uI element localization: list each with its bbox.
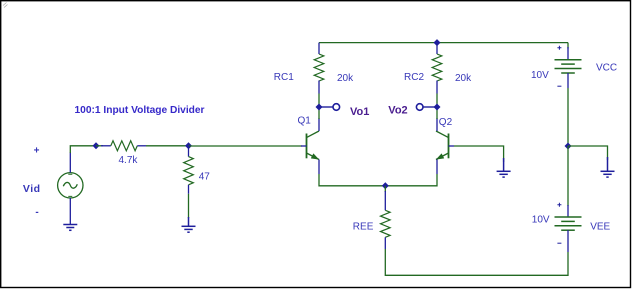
svg-text:Q1: Q1: [298, 116, 312, 127]
junction A: [93, 142, 100, 149]
wire VCC to junction: [567, 88, 569, 146]
pin Q1 collector: [318, 118, 320, 131]
wire junction to VEE: [567, 146, 569, 206]
pin VCC minus: [567, 73, 569, 88]
wire junction A to R1: [96, 145, 103, 147]
wire R2 to ground: [188, 194, 190, 218]
pin R2 bottom: [188, 185, 190, 194]
junction Vo2: [434, 104, 441, 111]
pin Q2 collector: [436, 118, 438, 131]
svg-text:100:1 Input Voltage Divider: 100:1 Input Voltage Divider: [75, 105, 205, 116]
ground (Vid): [63, 225, 77, 231]
svg-text:4.7k: 4.7k: [119, 155, 139, 166]
wire Vo1 stub: [320, 106, 333, 108]
svg-text:47: 47: [199, 171, 211, 182]
svg-text:Vo1: Vo1: [350, 106, 369, 118]
wire RC1 to Q1 collector: [318, 94, 320, 120]
resistor REE: [381, 210, 391, 237]
svg-text:+: +: [34, 145, 40, 156]
wire Vo2 stub: [423, 106, 436, 108]
pin VEE minus: [567, 230, 569, 252]
svg-text:VEE: VEE: [590, 222, 610, 233]
pin RC1 bottom: [318, 81, 320, 94]
junction E (emitters): [382, 182, 389, 189]
resistor RC1: [314, 54, 324, 81]
terminal Vo2: [416, 104, 423, 111]
wire emitter bus: [319, 174, 437, 186]
pin R1 left: [101, 145, 111, 147]
top rail wire: [319, 42, 568, 44]
svg-text:VCC: VCC: [596, 62, 617, 73]
pin REE bottom: [384, 237, 386, 249]
transistor Q1: [307, 131, 320, 160]
svg-text:RC1: RC1: [274, 72, 294, 83]
junction RC2 top: [434, 39, 441, 46]
svg-text:REE: REE: [353, 222, 374, 233]
wire Vid top to corner: [70, 146, 96, 153]
pin Vid bottom: [69, 198, 71, 225]
junction VCC/VEE: [565, 143, 572, 150]
wire Q2 base to ground: [454, 146, 504, 162]
pin VCC plus: [567, 47, 569, 60]
pin RC2 bottom: [436, 81, 438, 94]
battery VCC minus mark: [557, 85, 561, 87]
svg-text:RC2: RC2: [404, 72, 424, 83]
corner artifact: [3, 3, 8, 8]
pin RC1 top: [318, 43, 320, 54]
pin Vid top: [69, 153, 71, 173]
svg-text:Q2: Q2: [439, 117, 453, 128]
terminal Vo1: [333, 104, 340, 111]
battery VEE minus mark: [557, 242, 561, 244]
battery VEE plus mark: [557, 203, 561, 207]
pin Q1 base: [301, 145, 307, 147]
wire R1 to junction B: [146, 145, 189, 147]
wire junction to right ground: [568, 146, 608, 160]
svg-text:10V: 10V: [531, 70, 549, 81]
ground (supply): [601, 157, 615, 177]
wire VEE to bottom rail: [385, 252, 568, 275]
battery VCC plus mark: [557, 46, 561, 50]
svg-text:20k: 20k: [337, 73, 354, 84]
svg-text:10V: 10V: [532, 215, 550, 226]
wire VCC top: [567, 43, 569, 49]
junction B: [185, 142, 192, 149]
svg-text:-: -: [35, 207, 38, 218]
battery VCC: [555, 60, 582, 73]
wire RC2 to Q2 collector: [436, 94, 438, 120]
pin REE top: [384, 191, 386, 210]
ground (R2): [182, 217, 196, 232]
source Vid: [58, 173, 83, 198]
pin RC2 top: [436, 43, 438, 54]
pin Q2 emitter: [436, 160, 438, 175]
pin VEE plus: [567, 205, 569, 217]
svg-text:20k: 20k: [455, 73, 472, 84]
pin R1 right: [137, 145, 146, 147]
resistor R1 4.7k: [111, 141, 138, 151]
pin Q1 emitter: [318, 160, 320, 175]
junction Vo1: [316, 104, 323, 111]
wire junction E to REE: [384, 186, 386, 192]
svg-text:Vo2: Vo2: [388, 105, 407, 117]
wire junction B to Q1 base: [189, 145, 303, 147]
transistor Q2: [436, 131, 449, 160]
ground (Q2 base): [497, 158, 511, 177]
wire REE to bottom rail: [384, 249, 386, 276]
resistor R2 47: [184, 157, 194, 185]
pin R2 top: [188, 146, 190, 157]
pin Q2 base: [449, 145, 455, 147]
svg-text:Vid: Vid: [23, 183, 41, 195]
resistor RC2: [432, 54, 442, 81]
battery VEE: [555, 217, 582, 230]
